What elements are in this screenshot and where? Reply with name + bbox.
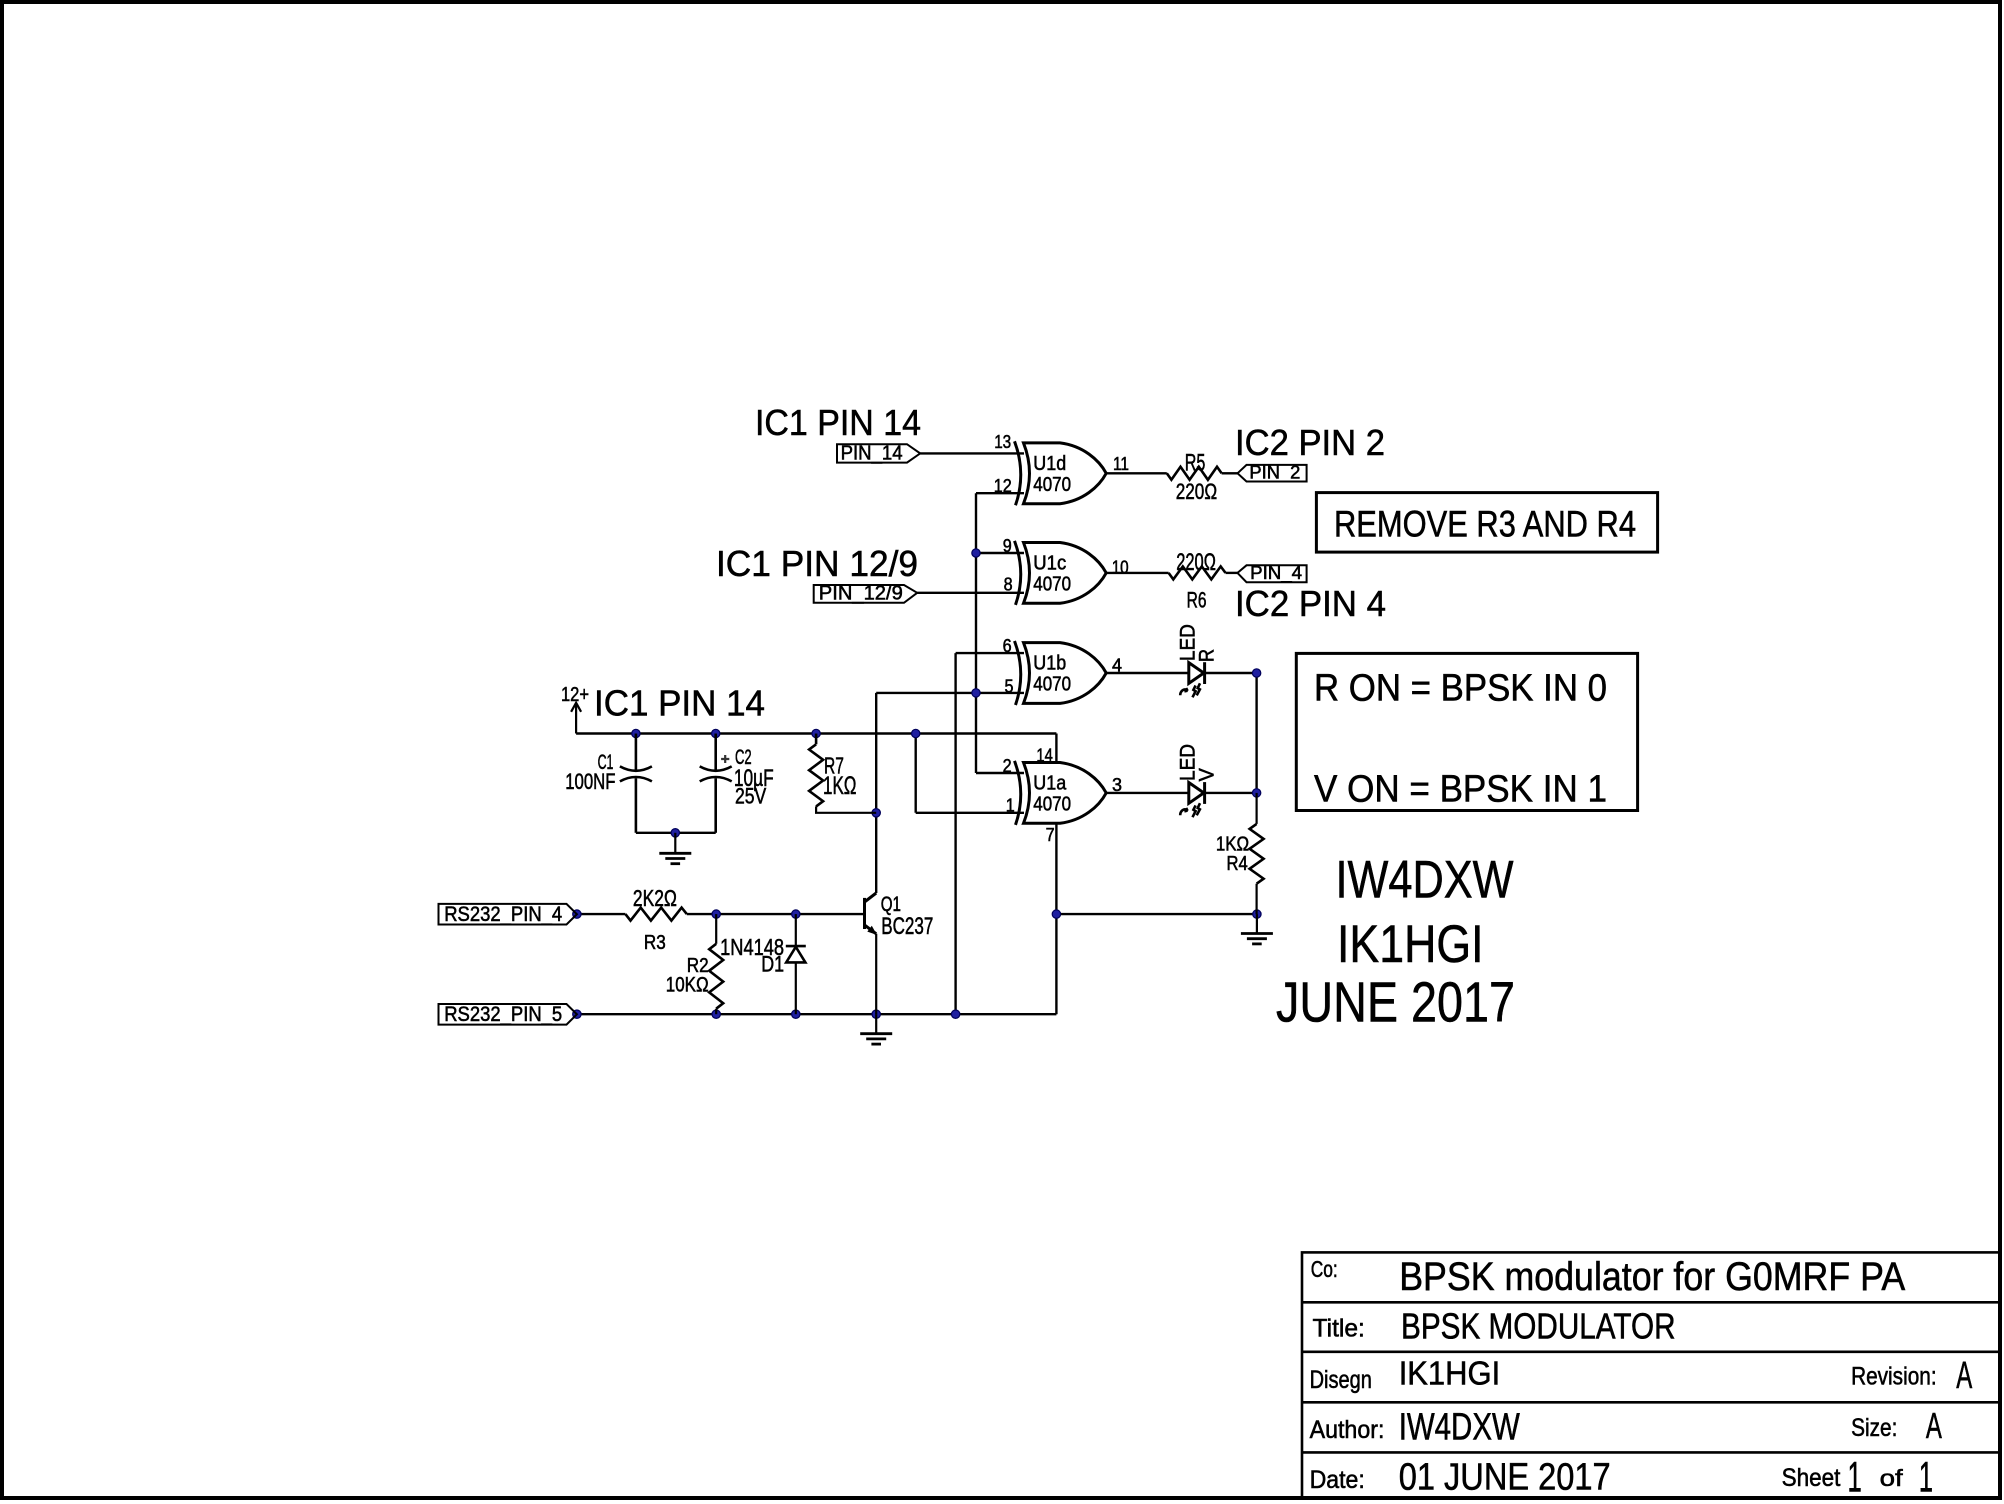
capacitor C1 (620, 734, 652, 833)
wire R3 to Q1 base (687, 913, 865, 915)
svg-text:1: 1 (1919, 1453, 1933, 1501)
resistor R3 (625, 908, 686, 921)
U1c labels (1033, 552, 1071, 595)
wire U1a pin14 drop from rail (1055, 734, 1057, 763)
svg-text:IC1 PIN 14: IC1 PIN 14 (594, 683, 765, 724)
hier label PIN_12/9 (814, 583, 918, 605)
transistor Q1 (865, 893, 877, 1014)
hier label PIN_4 (1238, 563, 1307, 584)
svg-text:PIN_14: PIN_14 (841, 443, 903, 465)
svg-text:Title:: Title: (1313, 1315, 1365, 1343)
svg-text:R5: R5 (1185, 449, 1206, 476)
svg-text:RS232_PIN_4: RS232_PIN_4 (444, 903, 562, 926)
junction pin7 to R4 wire (1052, 910, 1060, 918)
wire PIN_12/9 to U1c pin8 (917, 592, 1024, 594)
ground (Q1 emitter) (860, 1034, 892, 1044)
ground (R4) (1241, 934, 1273, 944)
wire pin6 drop to RS232_PIN_5 net (954, 653, 956, 1014)
wire U1b pin5 stub (876, 692, 1024, 694)
svg-text:220Ω: 220Ω (1176, 549, 1216, 576)
wire RS232_PIN_4 to R3 (577, 913, 626, 915)
wire U1a pin1 branch horizontal (916, 812, 1024, 814)
junction R2 top (712, 910, 720, 918)
svg-text:Date:: Date: (1310, 1466, 1365, 1494)
wire LED R cathode to node (1205, 672, 1257, 674)
svg-text:BC237: BC237 (881, 913, 933, 940)
LED V (1180, 782, 1204, 817)
svg-text:U1a: U1a (1033, 772, 1067, 794)
svg-text:PIN_4: PIN_4 (1250, 563, 1302, 584)
wire U1a pin1 branch vertical (915, 734, 917, 813)
ground (C1/C2) (659, 833, 691, 864)
junction RS232_PIN_5 tip (573, 1010, 581, 1018)
wire R6 to PIN_4 (1226, 572, 1238, 574)
wire vertical bus pins 12/9/5/2 (975, 493, 977, 773)
junction R7 bottom / collector (872, 809, 880, 817)
svg-text:4070: 4070 (1033, 474, 1071, 496)
junction C1 top on +12V rail (632, 729, 640, 737)
op-amp U1d XOR gate body (1015, 441, 1107, 505)
power symbol 12+ (561, 684, 589, 734)
svg-text:PIN_12/9: PIN_12/9 (819, 583, 903, 605)
op-amp U1c XOR gate body (1015, 541, 1107, 605)
junction R2 bottom (712, 1010, 720, 1018)
junction pin 5 on bus (972, 689, 980, 697)
note box R ON / V ON (1296, 653, 1637, 810)
U1a labels (1033, 772, 1071, 815)
svg-text:of: of (1880, 1465, 1904, 1491)
ground stub Q1 (875, 1014, 877, 1033)
svg-text:4070: 4070 (1033, 573, 1071, 595)
wire U1a output to LED V (1106, 792, 1189, 794)
svg-text:4070: 4070 (1033, 674, 1071, 696)
wire U1c pin9 stub (976, 552, 1024, 554)
junction Q1 emitter ground (872, 1010, 880, 1018)
svg-text:R6: R6 (1187, 588, 1207, 613)
svg-text:1: 1 (1848, 1453, 1862, 1501)
U1d labels (1033, 453, 1071, 496)
resistor R7 (809, 734, 876, 813)
svg-text:U1c: U1c (1033, 552, 1066, 574)
wire U1c output to R6 (1106, 572, 1168, 574)
svg-text:13: 13 (994, 432, 1011, 452)
wire U1b output to LED R (1106, 672, 1189, 674)
junction pin 9 on bus (972, 549, 980, 557)
svg-text:2: 2 (1003, 756, 1012, 776)
svg-text:25V: 25V (735, 784, 767, 809)
junction C1/C2 ground node (671, 829, 679, 837)
hier label RS232_PIN_5 (439, 1003, 577, 1026)
svg-text:IK1HGI: IK1HGI (1337, 915, 1484, 974)
svg-text:Revision:: Revision: (1851, 1363, 1937, 1391)
wire PIN_14 to U1d pin13 (920, 452, 1024, 454)
LED V labels (1177, 744, 1219, 782)
svg-text:7: 7 (1046, 825, 1055, 845)
svg-text:PIN_2: PIN_2 (1249, 462, 1300, 483)
svg-text:10: 10 (1112, 558, 1129, 578)
wire U1d pin12 stub (976, 492, 1024, 494)
LED R (1180, 662, 1204, 697)
svg-text:3: 3 (1112, 775, 1122, 795)
svg-text:100NF: 100NF (565, 769, 615, 794)
capacitor C2 (polarized) (700, 734, 732, 833)
svg-text:Sheet: Sheet (1782, 1464, 1841, 1492)
resistor R5 (1167, 467, 1222, 480)
hier label PIN_2 (1238, 462, 1307, 483)
node LED V cathode (1252, 789, 1260, 797)
svg-text:12: 12 (994, 476, 1012, 496)
wire C1 C2 bottom to ground node (636, 832, 716, 834)
junction pin6 line bottom (951, 1010, 959, 1018)
svg-text:1KΩ: 1KΩ (823, 772, 857, 800)
wire LED V cathode to node (1205, 792, 1257, 794)
svg-text:V ON = BPSK IN 1: V ON = BPSK IN 1 (1314, 769, 1607, 811)
hier label RS232_PIN_4 (439, 903, 577, 926)
svg-text:U1d: U1d (1033, 453, 1066, 475)
U1b labels (1033, 653, 1071, 696)
svg-text:BPSK MODULATOR: BPSK MODULATOR (1401, 1305, 1676, 1346)
resistor R6 (1169, 566, 1226, 579)
junction pin1 branch on +12V rail (912, 729, 920, 737)
svg-text:IC2 PIN 4: IC2 PIN 4 (1235, 583, 1386, 624)
svg-text:R4: R4 (1227, 853, 1248, 875)
resistor R2 (709, 914, 723, 1014)
title block outline (1302, 1252, 2000, 1498)
svg-text:4070: 4070 (1033, 793, 1071, 815)
resistor R4 (1250, 793, 1264, 914)
svg-text:2K2Ω: 2K2Ω (633, 885, 677, 911)
wire R5 to PIN_2 (1222, 472, 1238, 474)
note box REMOVE R3 AND R4 (1316, 493, 1657, 552)
junction D1 bottom (792, 1010, 800, 1018)
junction RS232_PIN_4 tip (573, 910, 581, 918)
svg-text:A: A (1926, 1405, 1942, 1446)
svg-text:IC2 PIN 2: IC2 PIN 2 (1235, 422, 1385, 463)
svg-text:IK1HGI: IK1HGI (1399, 1355, 1501, 1392)
diode D1 (786, 914, 806, 1014)
wire pin7 node to R4 ground (1056, 913, 1257, 915)
svg-text:IC1 PIN 12/9: IC1 PIN 12/9 (716, 543, 918, 584)
svg-text:10KΩ: 10KΩ (666, 974, 709, 997)
svg-text:6: 6 (1003, 636, 1012, 656)
svg-text:Disegn: Disegn (1310, 1366, 1372, 1394)
svg-text:V: V (1196, 768, 1219, 781)
svg-text:12+: 12+ (561, 684, 589, 706)
svg-text:Size:: Size: (1851, 1414, 1897, 1442)
svg-text:R ON = BPSK IN 0: R ON = BPSK IN 0 (1314, 668, 1607, 710)
transistor Q1 emitter arrow (867, 926, 877, 935)
svg-text:11: 11 (1113, 454, 1129, 474)
node LED R cathode (1252, 669, 1260, 677)
svg-text:Author:: Author: (1310, 1416, 1385, 1444)
svg-text:8: 8 (1004, 575, 1013, 595)
svg-text:A: A (1956, 1355, 1972, 1397)
junction R7 top on +12V rail (812, 729, 820, 737)
junction R4 bottom ground (1253, 910, 1261, 918)
svg-text:RS232_PIN_5: RS232_PIN_5 (444, 1003, 562, 1026)
svg-text:4: 4 (1112, 656, 1122, 676)
svg-text:R: R (1196, 649, 1219, 662)
op-amp U1b XOR gate body (1015, 641, 1107, 705)
svg-text:IC1 PIN 14: IC1 PIN 14 (755, 402, 921, 443)
wire U1a pin7 riser (1055, 823, 1057, 1015)
LED R labels (1177, 624, 1219, 662)
wire to U1a pin2 (976, 772, 1024, 774)
svg-text:BPSK modulator for G0MRF PA: BPSK modulator for G0MRF PA (1399, 1255, 1905, 1299)
svg-text:220Ω: 220Ω (1176, 479, 1217, 504)
wire RS232_PIN_5 ground net (577, 1013, 1057, 1015)
svg-text:1: 1 (1006, 796, 1015, 816)
svg-text:REMOVE R3 AND R4: REMOVE R3 AND R4 (1334, 504, 1636, 545)
wire collector riser (875, 693, 877, 893)
svg-text:D1: D1 (761, 952, 784, 977)
wire U1b pin6 stub (956, 652, 1024, 654)
wire +12V power rail (576, 732, 1056, 734)
hier label PIN_14 (837, 443, 920, 465)
svg-text:14: 14 (1036, 745, 1052, 765)
wire LED node column (1255, 673, 1257, 793)
junction D1 top (792, 910, 800, 918)
svg-text:Co:: Co: (1311, 1256, 1338, 1282)
wire U1d output to R5 (1106, 472, 1167, 474)
svg-text:IW4DXW: IW4DXW (1336, 851, 1514, 910)
svg-text:JUNE 2017: JUNE 2017 (1276, 971, 1515, 1035)
junction C2 top on +12V rail (712, 729, 720, 737)
svg-text:R3: R3 (644, 932, 666, 954)
svg-text:5: 5 (1005, 677, 1014, 697)
op-amp U1a XOR gate body (1015, 761, 1107, 825)
ground stub R4 (1256, 914, 1258, 933)
svg-text:IW4DXW: IW4DXW (1399, 1407, 1520, 1449)
svg-text:U1b: U1b (1033, 653, 1066, 675)
svg-text:9: 9 (1003, 536, 1012, 556)
svg-text:01 JUNE 2017: 01 JUNE 2017 (1399, 1457, 1611, 1499)
